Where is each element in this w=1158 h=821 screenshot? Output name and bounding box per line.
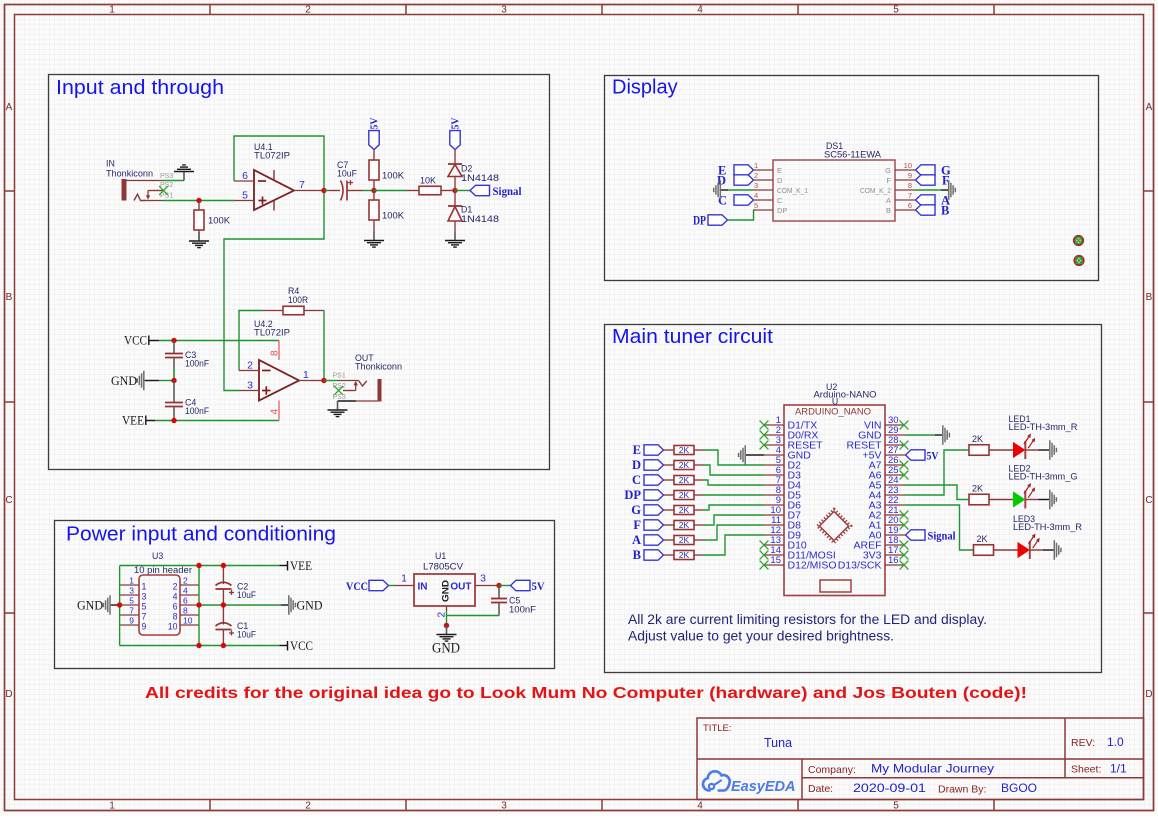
svg-text:DP: DP bbox=[777, 206, 787, 215]
net flag B bbox=[916, 205, 936, 215]
svg-text:EasyEDA: EasyEDA bbox=[731, 779, 795, 795]
net flag B bbox=[644, 550, 664, 560]
svg-text:DP: DP bbox=[693, 214, 706, 228]
wire LED1 to ground bbox=[1039, 449, 1050, 451]
junction VCC/C3 bbox=[171, 338, 176, 343]
svg-text:9: 9 bbox=[908, 171, 912, 180]
regulator U1 L7805CV bbox=[395, 574, 499, 611]
diode D2 1N4148 bbox=[448, 150, 462, 191]
resistor 10K bbox=[406, 186, 455, 195]
resistor 2K (C) bbox=[664, 476, 704, 485]
net flag F bbox=[916, 175, 936, 185]
svg-text:2K: 2K bbox=[679, 475, 690, 485]
svg-text:100K: 100K bbox=[382, 171, 404, 181]
svg-text:C: C bbox=[5, 495, 12, 506]
svg-text:2: 2 bbox=[305, 801, 311, 812]
wire PS3 to ground bbox=[163, 180, 184, 182]
svg-text:GND: GND bbox=[432, 640, 460, 656]
pin number 4 rotated bbox=[270, 409, 281, 415]
svg-text:5V: 5V bbox=[450, 117, 461, 129]
svg-text:100K: 100K bbox=[382, 211, 404, 221]
svg-text:10: 10 bbox=[183, 616, 193, 626]
svg-text:TITLE:: TITLE: bbox=[703, 723, 732, 734]
net flag E bbox=[644, 445, 664, 455]
wire DS1 COM_K_2 to ground bbox=[915, 189, 941, 191]
svg-text:D: D bbox=[1145, 689, 1152, 700]
net flag 5V (U1 out) bbox=[511, 580, 531, 590]
junction VCC/right bus bbox=[196, 643, 201, 648]
ground (LED1) bbox=[1050, 440, 1057, 460]
svg-text:GND: GND bbox=[77, 598, 103, 612]
pin number 8 rotated bbox=[270, 350, 281, 356]
svg-text:Main tuner circuit: Main tuner circuit bbox=[612, 326, 773, 348]
junction VEE/C4 bbox=[171, 418, 176, 423]
svg-text:LED-TH-3mm_R: LED-TH-3mm_R bbox=[1009, 422, 1078, 432]
section box: Main tuner circuit bbox=[605, 325, 1102, 673]
svg-text:PS1: PS1 bbox=[333, 373, 346, 380]
wire GND rail (power section) bbox=[199, 604, 281, 606]
svg-text:IN: IN bbox=[418, 582, 428, 593]
svg-text:3: 3 bbox=[480, 573, 486, 585]
net flag F bbox=[644, 520, 664, 530]
svg-text:5: 5 bbox=[242, 190, 248, 202]
svg-text:9: 9 bbox=[142, 621, 147, 631]
svg-text:2K: 2K bbox=[977, 534, 988, 544]
no-connect X pin 17 bbox=[900, 551, 909, 560]
svg-text:7: 7 bbox=[299, 179, 305, 191]
port GND (mid rail) bbox=[145, 380, 159, 382]
junction GND/right bus bbox=[196, 602, 201, 607]
svg-text:6: 6 bbox=[242, 170, 248, 182]
junction at signal node bbox=[452, 188, 457, 193]
svg-text:A: A bbox=[632, 533, 641, 547]
frame row ticks left bbox=[4, 191, 14, 613]
svg-text:2K: 2K bbox=[972, 434, 983, 444]
ground (below bias resistor) bbox=[189, 232, 209, 248]
svg-text:2K: 2K bbox=[679, 520, 690, 530]
svg-text:U1: U1 bbox=[435, 551, 446, 561]
net flag C bbox=[644, 475, 664, 485]
wire VCC rail bbox=[159, 340, 279, 342]
wire C to U2 bbox=[703, 480, 764, 485]
wire U2 pin22 to LED3 bbox=[905, 505, 974, 550]
wire U2 pin4 GND to ground bbox=[746, 454, 764, 456]
svg-text:3: 3 bbox=[501, 801, 507, 812]
no-connect X pin 18 bbox=[900, 541, 909, 550]
svg-text:6: 6 bbox=[183, 596, 188, 606]
resistor 2K (LED3 series) bbox=[974, 545, 1019, 556]
svg-text:2: 2 bbox=[247, 360, 253, 372]
junction VCC/C1 bbox=[221, 643, 226, 648]
svg-text:2020-09-01: 2020-09-01 bbox=[853, 781, 926, 795]
svg-text:LED-TH-3mm_R: LED-TH-3mm_R bbox=[1013, 522, 1082, 532]
ground (LED3) bbox=[1054, 540, 1061, 560]
svg-text:1: 1 bbox=[401, 573, 407, 585]
no-connect X pin 20 bbox=[900, 521, 909, 530]
pad hole 2 bbox=[1074, 256, 1083, 265]
IC U2 Arduino-NANO bbox=[764, 405, 905, 596]
op-amp U4.1 TL072IP bbox=[234, 170, 324, 211]
net flag 5V (above D2) bbox=[450, 131, 460, 150]
svg-text:Signal: Signal bbox=[928, 530, 956, 542]
svg-text:3: 3 bbox=[142, 591, 147, 601]
wire VCC rail (power section) bbox=[120, 645, 280, 647]
junction U1 output bbox=[496, 583, 501, 588]
svg-text:100R: 100R bbox=[288, 295, 308, 305]
junction at U4.2 output bbox=[321, 378, 326, 383]
svg-text:2: 2 bbox=[183, 576, 188, 586]
svg-text:TL072IP: TL072IP bbox=[254, 150, 290, 160]
no-connect X on PS2 bbox=[159, 186, 168, 195]
no-connect X pin 14 bbox=[760, 551, 769, 560]
svg-text:Thonkiconn: Thonkiconn bbox=[106, 169, 153, 179]
junction GND/C2/C1 bbox=[221, 602, 226, 607]
svg-text:OUT: OUT bbox=[450, 582, 471, 593]
svg-text:C: C bbox=[777, 196, 783, 205]
svg-text:D13/SCK: D13/SCK bbox=[838, 560, 882, 572]
svg-text:3: 3 bbox=[754, 181, 758, 190]
ground (LED2) bbox=[1050, 490, 1057, 510]
svg-text:9: 9 bbox=[129, 616, 134, 626]
wire divider to 10K bbox=[374, 190, 406, 192]
svg-text:E: E bbox=[633, 443, 641, 457]
svg-text:F: F bbox=[633, 518, 641, 532]
wire B to U2 bbox=[703, 535, 764, 555]
capacitor C4 100nF bbox=[165, 381, 183, 421]
svg-text:2K: 2K bbox=[679, 460, 690, 470]
svg-text:GND: GND bbox=[441, 579, 451, 602]
ground (below D1) bbox=[445, 232, 465, 248]
resistor 2K (F) bbox=[664, 521, 704, 530]
svg-text:1.0: 1.0 bbox=[1107, 735, 1124, 749]
ground (U2 pin 4) bbox=[739, 445, 746, 465]
net flag G bbox=[916, 165, 936, 175]
svg-text:2K: 2K bbox=[679, 490, 690, 500]
net flag 5V (above divider) bbox=[369, 131, 379, 150]
svg-text:4: 4 bbox=[173, 591, 178, 601]
section box: Power input and conditioning bbox=[55, 521, 555, 669]
no-connect X pin 13 bbox=[760, 541, 769, 550]
svg-text:4: 4 bbox=[754, 191, 758, 200]
svg-text:D: D bbox=[777, 176, 783, 185]
wire GND port to rail bbox=[159, 380, 174, 382]
svg-text:6: 6 bbox=[908, 201, 912, 210]
wire U4.1 output to C7 bbox=[324, 190, 329, 192]
wire LED2 to ground bbox=[1039, 499, 1050, 501]
svg-text:2K: 2K bbox=[972, 484, 983, 494]
wire U2 pin24 to LED2 bbox=[905, 485, 969, 500]
svg-text:10 pin header: 10 pin header bbox=[134, 565, 192, 575]
svg-text:4: 4 bbox=[697, 801, 703, 812]
capacitor C2 10uF bbox=[216, 566, 235, 606]
wire VEE rail bbox=[155, 420, 279, 422]
wire D to U2 bbox=[703, 465, 764, 475]
svg-text:4: 4 bbox=[183, 586, 188, 596]
EasyEDA logo cloud bbox=[703, 771, 730, 790]
svg-text:My Modular Journey: My Modular Journey bbox=[871, 762, 994, 776]
svg-text:3: 3 bbox=[129, 586, 134, 596]
wire DP to U2 bbox=[703, 494, 764, 496]
svg-text:10uF: 10uF bbox=[237, 590, 257, 600]
resistor 2K (E) bbox=[664, 446, 704, 455]
svg-text:Adjust value to get your desir: Adjust value to get your desired brightn… bbox=[628, 629, 894, 644]
resistor 2K (DP) bbox=[664, 491, 704, 500]
resistor 100K (input bias) bbox=[194, 201, 204, 240]
junction at 100K bias resistor bbox=[196, 198, 201, 203]
diode D1 1N4148 bbox=[448, 191, 462, 232]
U2 bottom tab bbox=[820, 580, 851, 592]
svg-text:TL072IP: TL072IP bbox=[254, 328, 290, 338]
net flag A bbox=[916, 195, 936, 205]
wire R4 to U4.2 pin 2 bbox=[239, 311, 262, 371]
svg-text:All credits for the original i: All credits for the original idea go to … bbox=[145, 685, 1027, 702]
op-amp U4.2 TL072IP bbox=[239, 341, 324, 421]
net flag Signal bbox=[470, 185, 490, 195]
ground (input sleeve) bbox=[174, 165, 194, 181]
resistor 100K (upper divider) bbox=[369, 150, 379, 191]
svg-text:U3: U3 bbox=[152, 551, 163, 561]
net flag 5V (U2 +5V) bbox=[906, 450, 926, 460]
svg-text:6: 6 bbox=[173, 601, 178, 611]
svg-text:VEE: VEE bbox=[290, 559, 312, 573]
feedback wire U4.1 output to pin 6 and to U4.2 pin 3 bbox=[224, 136, 324, 391]
port VEE bbox=[146, 416, 155, 426]
svg-text:2: 2 bbox=[305, 5, 311, 16]
connector U3 10 pin header bbox=[120, 575, 199, 635]
svg-text:Display: Display bbox=[612, 77, 678, 99]
svg-text:Power input and conditioning: Power input and conditioning bbox=[66, 524, 336, 546]
svg-text:10K: 10K bbox=[420, 176, 436, 186]
U2 QFP package drawing bbox=[817, 509, 851, 543]
junction U1 GND bbox=[444, 623, 449, 628]
svg-text:7: 7 bbox=[129, 606, 134, 616]
svg-text:4: 4 bbox=[697, 5, 703, 16]
svg-text:GND: GND bbox=[111, 374, 137, 388]
svg-text:VCC: VCC bbox=[290, 639, 313, 653]
resistor R4 100R bbox=[262, 306, 324, 315]
svg-text:7: 7 bbox=[908, 191, 912, 200]
port VCC (right) bbox=[280, 641, 288, 651]
no-connect X pin 25 bbox=[900, 471, 909, 480]
svg-text:1: 1 bbox=[129, 576, 134, 586]
svg-text:All 2k are current limiting re: All 2k are current limiting resistors fo… bbox=[628, 612, 987, 627]
svg-text:REV:: REV: bbox=[1071, 737, 1095, 749]
no-connect X pin 21 bbox=[900, 511, 909, 520]
wire PS1 to op-amp pin 5 bbox=[163, 200, 234, 202]
frame row ticks right bbox=[1144, 191, 1154, 613]
svg-text:C: C bbox=[718, 194, 727, 208]
net flag Signal (U2 A0) bbox=[906, 530, 926, 540]
connector IN Thonkiconn (input jack) bbox=[122, 179, 164, 201]
wire C5 to U1 GND pin bbox=[447, 616, 500, 626]
frame column ticks bottom bbox=[210, 800, 994, 811]
junction at U4.1 output bbox=[321, 188, 326, 193]
svg-text:COM_K_2: COM_K_2 bbox=[860, 186, 891, 195]
no-connect X on PS2 (out) bbox=[334, 386, 343, 395]
svg-text:5: 5 bbox=[893, 5, 899, 16]
svg-text:5: 5 bbox=[129, 596, 134, 606]
ground (U1) bbox=[437, 626, 457, 642]
resistor 2K (LED2 series) bbox=[969, 494, 1014, 505]
net flag D bbox=[734, 175, 754, 185]
ground (output sleeve) bbox=[328, 401, 348, 417]
svg-text:8: 8 bbox=[270, 350, 281, 356]
svg-text:1: 1 bbox=[109, 5, 115, 16]
resistor 2K (G) bbox=[664, 506, 704, 515]
svg-text:2K: 2K bbox=[679, 535, 690, 545]
svg-text:B: B bbox=[941, 204, 949, 218]
frame column numbers bbox=[109, 5, 899, 812]
svg-text:COM_K_1: COM_K_1 bbox=[777, 186, 808, 195]
U1 pin name GND rotated bbox=[441, 579, 451, 602]
wire VCC flag to U1 bbox=[389, 585, 396, 587]
net flag A bbox=[644, 535, 664, 545]
svg-text:E: E bbox=[777, 166, 782, 175]
capacitor C1 10uF bbox=[216, 605, 235, 646]
ground (U2 pin 29) bbox=[943, 425, 950, 445]
resistor 2K (D) bbox=[664, 461, 704, 470]
svg-text:5: 5 bbox=[893, 801, 899, 812]
svg-text:G: G bbox=[631, 503, 641, 517]
svg-text:A: A bbox=[886, 196, 891, 205]
junction GND/C3/C4 bbox=[171, 378, 176, 383]
title block frame bbox=[697, 718, 1144, 800]
svg-text:U: U bbox=[832, 397, 838, 407]
svg-text:D: D bbox=[632, 458, 641, 472]
resistor 2K (LED1 series) bbox=[969, 445, 1014, 456]
no-connect X pin 3 bbox=[760, 441, 769, 450]
port VEE (right) bbox=[280, 561, 288, 571]
svg-text:BGOO: BGOO bbox=[1001, 781, 1037, 795]
svg-text:B: B bbox=[6, 292, 13, 303]
capacitor C7 10uF bbox=[329, 180, 363, 201]
svg-text:1: 1 bbox=[754, 161, 758, 170]
frame column ticks top bbox=[210, 4, 994, 14]
svg-text:F: F bbox=[886, 176, 891, 185]
IC DS1 SC56-11EWA seven segment display bbox=[753, 160, 915, 221]
U1 pin number 2 rotated bbox=[437, 612, 448, 618]
svg-text:2K: 2K bbox=[679, 445, 690, 455]
svg-text:A: A bbox=[1146, 102, 1153, 113]
svg-text:5V: 5V bbox=[532, 581, 546, 593]
no-connect X pin 26 bbox=[900, 461, 909, 470]
svg-text:2: 2 bbox=[754, 171, 758, 180]
no-connect X pin 15 bbox=[760, 561, 769, 570]
svg-text:B: B bbox=[1146, 292, 1153, 303]
svg-text:10: 10 bbox=[904, 161, 912, 170]
junction header GND left bbox=[117, 602, 122, 607]
wire signal node to Signal flag bbox=[455, 190, 470, 192]
svg-text:VCC: VCC bbox=[124, 333, 147, 347]
svg-text:G: G bbox=[885, 166, 891, 175]
wire U1 out to 5V flag bbox=[499, 585, 511, 587]
wire G to U2 bbox=[703, 505, 764, 510]
svg-text:VEE: VEE bbox=[122, 413, 144, 427]
net flag E bbox=[734, 165, 754, 175]
net flag C bbox=[734, 195, 754, 205]
wire C7 to divider bbox=[363, 190, 374, 192]
net label 5V rotated bbox=[450, 117, 461, 129]
net flag VCC (U1 input) bbox=[369, 580, 389, 590]
capacitor C3 100nF bbox=[165, 341, 183, 381]
svg-text:100nF: 100nF bbox=[185, 406, 210, 416]
svg-text:L7805CV: L7805CV bbox=[423, 561, 463, 571]
svg-text:5: 5 bbox=[754, 201, 758, 210]
net flag G bbox=[644, 505, 664, 515]
wire A to U2 bbox=[703, 525, 764, 540]
svg-text:2: 2 bbox=[173, 581, 178, 591]
svg-text:IN: IN bbox=[106, 159, 115, 169]
section box: Display bbox=[605, 76, 1099, 281]
no-connect X pin 2 bbox=[760, 431, 769, 440]
svg-text:1: 1 bbox=[109, 801, 115, 812]
svg-text:Drawn By:: Drawn By: bbox=[938, 784, 986, 796]
wire U2 pin29 GND to ground bbox=[905, 434, 935, 436]
svg-text:B: B bbox=[886, 206, 891, 215]
svg-text:1: 1 bbox=[142, 581, 147, 591]
wire LED3 to ground bbox=[1043, 549, 1054, 551]
net flag D bbox=[644, 460, 664, 470]
svg-text:8: 8 bbox=[173, 611, 178, 621]
section box: Input and through bbox=[49, 75, 550, 470]
svg-text:3: 3 bbox=[501, 5, 507, 16]
wire right header bus bbox=[198, 566, 200, 646]
svg-text:D: D bbox=[5, 689, 12, 700]
connector OUT Thonkiconn (output jack) bbox=[338, 379, 382, 402]
svg-text:2K: 2K bbox=[679, 550, 690, 560]
resistor 2K (A) bbox=[664, 536, 704, 545]
port GND (right) bbox=[281, 604, 288, 606]
no-connect X pin 1 bbox=[760, 421, 769, 430]
svg-text:5V: 5V bbox=[927, 450, 940, 462]
svg-text:VCC: VCC bbox=[346, 581, 368, 593]
svg-text:SC56-11EWA: SC56-11EWA bbox=[824, 149, 881, 159]
ground (below divider) bbox=[364, 232, 384, 248]
svg-text:GND: GND bbox=[297, 598, 323, 612]
svg-text:16: 16 bbox=[888, 555, 899, 566]
svg-text:Date:: Date: bbox=[808, 783, 833, 795]
svg-text:A: A bbox=[6, 102, 13, 113]
junction at divider node bbox=[371, 188, 376, 193]
net flag DP bbox=[708, 215, 728, 225]
svg-text:1/1: 1/1 bbox=[1110, 762, 1127, 776]
LED LED3 bbox=[1018, 534, 1043, 560]
svg-text:8: 8 bbox=[908, 181, 912, 190]
svg-text:Sheet:: Sheet: bbox=[1071, 764, 1101, 776]
svg-text:10: 10 bbox=[168, 621, 178, 631]
wire U2 pin23 to LED1 bbox=[905, 450, 969, 495]
wire F to U2 bbox=[703, 515, 764, 525]
svg-text:Company:: Company: bbox=[808, 764, 856, 776]
wire E to U2 bbox=[703, 450, 764, 465]
svg-text:1N4148: 1N4148 bbox=[461, 173, 499, 183]
svg-text:Tuna: Tuna bbox=[764, 736, 792, 750]
frame row letters bbox=[5, 102, 1152, 700]
junction VEE/right bus bbox=[196, 563, 201, 568]
svg-text:15: 15 bbox=[770, 555, 781, 566]
svg-text:1: 1 bbox=[303, 369, 309, 381]
svg-text:Input and through: Input and through bbox=[56, 77, 224, 99]
port VCC bbox=[149, 336, 159, 346]
svg-text:Signal: Signal bbox=[493, 186, 522, 198]
ground (COM_K_1) bbox=[714, 180, 721, 200]
LED LED2 bbox=[1014, 483, 1039, 509]
svg-text:1N4148: 1N4148 bbox=[461, 214, 499, 224]
svg-text:4: 4 bbox=[270, 409, 281, 415]
wire U4.2 output to OUT jack bbox=[324, 380, 339, 382]
svg-text:LED-TH-3mm_G: LED-TH-3mm_G bbox=[1009, 472, 1078, 482]
resistor 100K (lower divider) bbox=[369, 191, 379, 232]
